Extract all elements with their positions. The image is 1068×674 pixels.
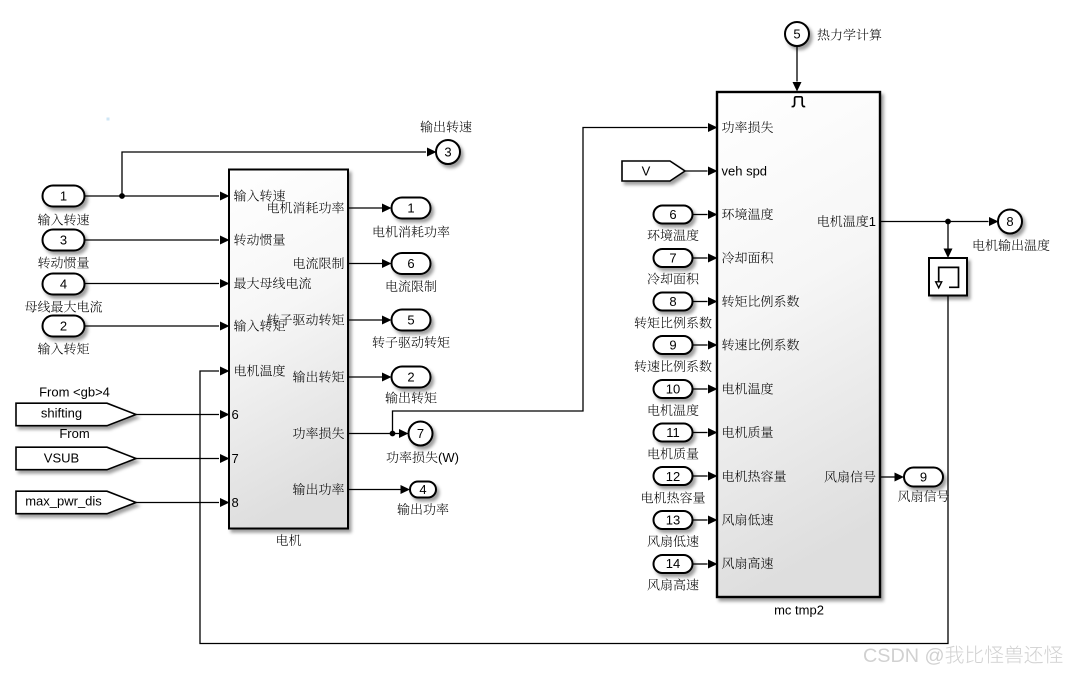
- From tag max_pwr_dis: [16, 491, 136, 514]
- svg-text:1: 1: [407, 201, 414, 216]
- arrowhead 电机温度: [220, 367, 230, 376]
- svg-text:电机: 电机: [275, 533, 301, 548]
- arrowhead 电机质量: [708, 428, 718, 437]
- svg-text:最大母线电流: 最大母线电流: [234, 276, 312, 291]
- junction dot 电机温度1 branch: [945, 219, 951, 225]
- subsystem block 电机: [229, 170, 348, 529]
- wire feedback memory to 电机温度: [200, 296, 948, 644]
- svg-text:风扇低速: 风扇低速: [722, 513, 774, 528]
- memory block icon: [939, 267, 959, 287]
- svg-text:环境温度: 环境温度: [722, 207, 774, 222]
- svg-text:输出转矩: 输出转矩: [385, 391, 437, 406]
- svg-text:11: 11: [666, 425, 680, 440]
- svg-text:转速比例系数: 转速比例系数: [634, 359, 712, 374]
- wire inport1 to 电机 输入转速: [85, 195, 219, 197]
- svg-text:风扇信号: 风扇信号: [897, 489, 949, 504]
- inport 12 电机热容量: [654, 467, 693, 485]
- svg-text:电机质量: 电机质量: [647, 447, 699, 462]
- outport 8 电机输出温度 circle: [998, 210, 1022, 234]
- svg-text:7: 7: [669, 251, 676, 266]
- svg-text:输入转矩: 输入转矩: [37, 342, 89, 357]
- wire inport5 to trigger: [796, 46, 798, 82]
- arrowhead 最大母线电流: [220, 279, 230, 288]
- svg-text:环境温度: 环境温度: [647, 228, 699, 243]
- wire inport8 to 转矩比例系数: [693, 301, 708, 303]
- svg-text:输出转速: 输出转速: [420, 120, 472, 135]
- svg-text:风扇低速: 风扇低速: [647, 534, 699, 549]
- arrowhead outport2: [382, 373, 392, 382]
- arrowhead 电机热容量: [708, 472, 718, 481]
- arrowhead 输入转矩: [220, 322, 230, 331]
- arrowhead 转矩比例系数: [708, 297, 718, 306]
- wire max_pwr_dis to port8: [136, 502, 219, 504]
- wire inport6 to 环境温度: [693, 214, 708, 216]
- memory block: [929, 258, 967, 296]
- inport 1: [43, 186, 85, 207]
- svg-text:4: 4: [419, 482, 426, 497]
- svg-text:电机输出温度: 电机输出温度: [972, 238, 1050, 253]
- arrowhead outport8: [989, 217, 999, 226]
- svg-text:6: 6: [232, 407, 239, 422]
- arrowhead port7: [220, 454, 230, 463]
- wire 功率损失 out: [348, 433, 399, 435]
- wire inport7 to 冷却面积: [693, 257, 708, 259]
- svg-text:V: V: [642, 164, 651, 179]
- svg-text:13: 13: [666, 513, 680, 528]
- wire inport13 to 风扇低速: [693, 519, 708, 521]
- inport 7 冷却面积: [654, 249, 693, 267]
- svg-text:输出功率: 输出功率: [397, 502, 449, 517]
- inport 5 热力学计算 circle: [785, 22, 809, 46]
- arrowhead 功率损失 into mc tmp2: [708, 123, 718, 132]
- svg-text:max_pwr_dis: max_pwr_dis: [25, 494, 102, 509]
- svg-text:电流限制: 电流限制: [292, 256, 344, 271]
- arrowhead 电机温度2: [708, 385, 718, 394]
- arrowhead 环境温度: [708, 210, 718, 219]
- inport 2: [43, 316, 85, 337]
- arrowhead 转动惯量: [220, 236, 230, 245]
- inport 6 环境温度: [654, 206, 693, 224]
- svg-text:热力学计算: 热力学计算: [817, 28, 882, 43]
- svg-text:母线最大电流: 母线最大电流: [24, 300, 102, 315]
- wire shifting to port6: [136, 414, 219, 416]
- outport 6 电流限制: [392, 253, 431, 274]
- svg-text:风扇高速: 风扇高速: [722, 556, 774, 571]
- trigger port symbol on mc tmp2: [792, 97, 806, 107]
- arrowhead veh spd: [708, 167, 718, 176]
- svg-text:VSUB: VSUB: [44, 451, 79, 466]
- outport 3 输出转速 circle: [436, 140, 460, 164]
- inport 11 电机质量: [654, 424, 693, 442]
- inport 8 转矩比例系数: [654, 293, 693, 311]
- wire branch up to outport3: [122, 152, 426, 196]
- svg-text:转速比例系数: 转速比例系数: [722, 338, 800, 353]
- svg-text:veh spd: veh spd: [722, 164, 768, 179]
- svg-text:CSDN @我比怪兽还怪: CSDN @我比怪兽还怪: [863, 645, 1064, 667]
- arrowhead outport4: [401, 485, 411, 494]
- junction dot inport1 branch: [119, 193, 125, 199]
- svg-text:功率损失(W): 功率损失(W): [386, 450, 459, 465]
- outport 9 风扇信号: [904, 468, 943, 487]
- svg-text:输出转矩: 输出转矩: [292, 370, 344, 385]
- svg-text:冷却面积: 冷却面积: [722, 251, 775, 266]
- outport 2 输出转矩: [392, 367, 431, 388]
- wire branch down to memory: [947, 222, 949, 249]
- artifact blue dot: [107, 118, 110, 121]
- arrowhead port8: [220, 498, 230, 507]
- svg-text:电机消耗功率: 电机消耗功率: [372, 225, 450, 240]
- From tag V: [622, 161, 685, 181]
- wire 电机消耗功率 out: [348, 207, 382, 209]
- svg-text:电机热容量: 电机热容量: [722, 469, 787, 484]
- svg-text:mc tmp2: mc tmp2: [774, 603, 824, 618]
- wire VSUB to port7: [136, 458, 219, 460]
- inport 14 风扇高速: [654, 555, 693, 573]
- arrowhead 冷却面积: [708, 254, 718, 263]
- svg-text:14: 14: [666, 556, 680, 571]
- svg-text:电机温度: 电机温度: [647, 403, 699, 418]
- From tag VSUB: [16, 447, 136, 470]
- svg-text:1: 1: [60, 189, 67, 204]
- arrowhead port6: [220, 410, 230, 419]
- svg-text:转子驱动转矩: 转子驱动转矩: [372, 335, 450, 350]
- svg-text:9: 9: [669, 338, 676, 353]
- outport 7 功率损失 circle: [409, 422, 433, 446]
- svg-text:冷却面积: 冷却面积: [647, 272, 700, 287]
- svg-text:From: From: [59, 426, 89, 441]
- subsystem block mc tmp2: [717, 92, 880, 597]
- wire inport3 to 转动惯量: [85, 239, 219, 241]
- junction dot 功率损失 branch: [390, 431, 396, 437]
- svg-text:电机温度: 电机温度: [722, 382, 774, 397]
- svg-text:转子驱动转矩: 转子驱动转矩: [266, 313, 344, 328]
- svg-text:电机质量: 电机质量: [722, 425, 774, 440]
- svg-text:功率损失: 功率损失: [292, 426, 344, 441]
- arrowhead outport6: [382, 259, 392, 268]
- arrowhead trigger: [793, 82, 802, 92]
- svg-text:电机热容量: 电机热容量: [640, 491, 705, 506]
- svg-text:From <gb>4: From <gb>4: [39, 385, 110, 400]
- svg-text:7: 7: [232, 451, 239, 466]
- svg-text:风扇高速: 风扇高速: [647, 578, 699, 593]
- svg-text:输出功率: 输出功率: [292, 482, 344, 497]
- svg-text:功率损失: 功率损失: [722, 120, 774, 135]
- svg-text:6: 6: [407, 256, 414, 271]
- svg-text:2: 2: [60, 319, 67, 334]
- outport 4 输出功率: [410, 482, 436, 498]
- wire 转子驱动转矩 out: [348, 319, 382, 321]
- svg-text:3: 3: [60, 233, 67, 248]
- outport 1 电机消耗功率: [392, 198, 431, 219]
- wire V tag to veh spd: [685, 170, 708, 172]
- arrowhead 风扇高速: [708, 560, 718, 569]
- arrowhead 转速比例系数: [708, 341, 718, 350]
- wire 电流限制 out: [348, 263, 382, 265]
- wire 风扇信号 to outport9: [880, 476, 895, 478]
- svg-text:转动惯量: 转动惯量: [37, 256, 89, 271]
- wire inport10 to 电机温度: [693, 388, 708, 390]
- wire inport9 to 转速比例系数: [693, 344, 708, 346]
- svg-text:转动惯量: 转动惯量: [234, 233, 286, 248]
- outport 5 转子驱动转矩: [392, 310, 431, 331]
- inport 13 风扇低速: [654, 511, 693, 529]
- wire inport2 to 输入转矩: [85, 325, 219, 327]
- svg-text:6: 6: [669, 207, 676, 222]
- wire inport4 to 最大母线电流: [85, 283, 219, 285]
- svg-text:转矩比例系数: 转矩比例系数: [722, 294, 800, 309]
- arrowhead 输入转速: [220, 192, 230, 201]
- inport 10 电机温度: [654, 380, 693, 398]
- svg-text:5: 5: [793, 27, 800, 42]
- wire inport14 to 风扇高速: [693, 563, 708, 565]
- svg-text:shifting: shifting: [41, 406, 82, 421]
- svg-text:9: 9: [920, 470, 927, 485]
- From tag shifting: [16, 403, 136, 426]
- svg-text:4: 4: [60, 277, 67, 292]
- wire 输出转矩 out: [348, 376, 382, 378]
- svg-text:8: 8: [669, 294, 676, 309]
- arrowhead outport3: [427, 148, 437, 157]
- svg-text:电机消耗功率: 电机消耗功率: [266, 201, 344, 216]
- svg-text:电流限制: 电流限制: [385, 279, 437, 294]
- svg-text:10: 10: [666, 382, 680, 397]
- wire branch 功率损失 to mc tmp2: [393, 128, 708, 434]
- arrowhead outport9: [895, 473, 905, 482]
- svg-text:2: 2: [407, 370, 414, 385]
- inport 3: [43, 230, 85, 251]
- svg-text:转矩比例系数: 转矩比例系数: [634, 316, 712, 331]
- arrowhead outport1: [382, 204, 392, 213]
- inport 9 转速比例系数: [654, 336, 693, 354]
- svg-text:7: 7: [417, 426, 424, 441]
- arrowhead memory in: [944, 249, 953, 259]
- wire 电机温度1 to outport8: [880, 221, 989, 223]
- inport 4: [43, 274, 85, 295]
- arrowhead outport5: [382, 316, 392, 325]
- svg-text:电机温度1: 电机温度1: [817, 214, 876, 229]
- svg-text:输入转速: 输入转速: [37, 213, 89, 228]
- svg-text:3: 3: [444, 145, 451, 160]
- wire inport11 to 电机质量: [693, 432, 708, 434]
- arrowhead 风扇低速: [708, 516, 718, 525]
- arrowhead outport7: [399, 429, 409, 438]
- svg-text:5: 5: [407, 313, 414, 328]
- svg-text:风扇信号: 风扇信号: [824, 470, 876, 485]
- wire inport12 to 电机热容量: [693, 475, 708, 477]
- svg-text:电机温度: 电机温度: [234, 364, 286, 379]
- svg-text:8: 8: [232, 495, 239, 510]
- svg-text:8: 8: [1006, 214, 1013, 229]
- wire 输出功率 out: [348, 489, 401, 491]
- svg-text:12: 12: [666, 469, 680, 484]
